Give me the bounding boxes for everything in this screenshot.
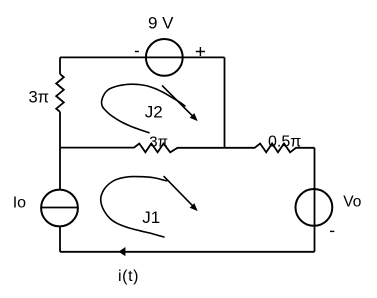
svg-text:i(t): i(t) [118,268,139,285]
svg-text:Vo: Vo [343,193,361,210]
svg-text:Io: Io [13,194,26,211]
svg-text:3π: 3π [29,88,50,106]
svg-text:J2: J2 [145,102,163,121]
svg-text:0.5π: 0.5π [268,133,301,150]
svg-text:9 V: 9 V [148,13,174,32]
svg-text:3π: 3π [149,133,168,150]
svg-text:J1: J1 [142,208,160,227]
